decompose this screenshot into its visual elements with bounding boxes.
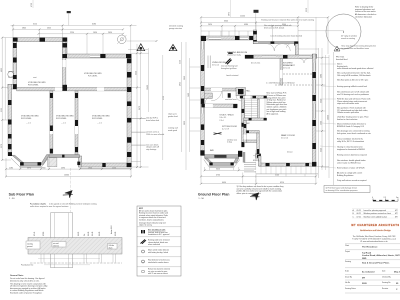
wall: SFP bottom right wall bbox=[80, 163, 131, 167]
svg-text:3110: 3110 bbox=[33, 24, 37, 26]
north arrow symbol right bbox=[169, 44, 177, 50]
svg-text:6180: 6180 bbox=[92, 24, 96, 26]
stairs treads bbox=[245, 99, 258, 120]
svg-text:May 21: May 21 bbox=[394, 271, 400, 273]
svg-text:HALL: HALL bbox=[246, 90, 251, 93]
GFP terrace below right wing bbox=[256, 173, 318, 175]
ground hatch band bbox=[28, 238, 122, 255]
mid dimension verticals between plans bbox=[163, 42, 200, 170]
svg-text:New floor joists at 400 ctrs t: New floor joists at 400 ctrs to S.E. spe… bbox=[337, 79, 368, 82]
section marker above GFP bbox=[254, 10, 259, 13]
GFP pier blocks top wall bbox=[201, 36, 206, 41]
svg-text:2150: 2150 bbox=[180, 60, 182, 64]
wall: GFP bottom right wing wall bbox=[259, 163, 316, 166]
svg-text:2845: 2845 bbox=[22, 28, 26, 30]
SFP bay outer sill lines bbox=[11, 158, 48, 167]
svg-text:Existing opening infilled to m: Existing opening infilled to match bwk bbox=[337, 85, 367, 88]
wall: SFP bay right diagonal bbox=[41, 155, 50, 165]
wardrobe lines left bedroom bbox=[207, 56, 209, 69]
interior wall: GFP wc rear horizontal bbox=[246, 140, 259, 143]
door arc hwall1 bbox=[211, 91, 222, 101]
svg-text:5.8 x 4.2: 5.8 x 4.2 bbox=[212, 64, 219, 66]
chimney breast on GFP left wall bbox=[204, 93, 212, 99]
wall: GFP right wall bbox=[312, 54, 316, 167]
white label boxes in band bbox=[26, 241, 40, 249]
svg-text:Sub Floor Plan: Sub Floor Plan bbox=[9, 192, 34, 196]
section wall outline bbox=[51, 213, 73, 268]
grid stub top left bbox=[32, 0, 34, 8]
interior wall: GFP wc vertical bbox=[244, 120, 247, 142]
svg-text:where indicated: where indicated bbox=[148, 243, 160, 246]
svg-text:FLR LEVEL: FLR LEVEL bbox=[28, 84, 39, 86]
GFP pier blocks right wall bbox=[312, 72, 316, 78]
SFP pier blocks top wall A bbox=[13, 38, 18, 42]
svg-text:96.20: 96.20 bbox=[99, 232, 101, 236]
svg-text:hearth retained: hearth retained bbox=[226, 74, 238, 77]
section marker above SFP bbox=[67, 11, 71, 13]
boxed note bottom right of plan bbox=[324, 186, 370, 193]
notes trunk line bbox=[333, 52, 335, 185]
svg-text:5.6 x 3.4: 5.6 x 3.4 bbox=[281, 137, 288, 139]
stair side wall bbox=[258, 99, 260, 120]
svg-text:FLR LEVEL: FLR LEVEL bbox=[92, 118, 103, 120]
svg-text:interlinked to smoke alarms: interlinked to smoke alarms bbox=[148, 261, 169, 264]
kitchen dashed beam line upper bbox=[283, 73, 312, 75]
leader lines from plan to notes bbox=[320, 64, 336, 168]
GFP pier blocks left wall bbox=[201, 65, 204, 71]
foundation walls below band bbox=[41, 254, 116, 263]
top right corner notes bbox=[355, 6, 377, 19]
svg-text:05.21: 05.21 bbox=[357, 210, 362, 212]
level triangle symbol below circle bbox=[334, 46, 340, 51]
SFP pier blocks bottom wall bbox=[102, 163, 105, 167]
svg-text:toughened or laminated to BS62: toughened or laminated to BS6206 bbox=[337, 148, 365, 151]
svg-text:2250: 2250 bbox=[112, 167, 116, 169]
svg-text:Sub & Ground Floor Plans: Sub & Ground Floor Plans bbox=[362, 262, 390, 264]
detail circle bbox=[326, 14, 361, 49]
svg-text:Drawing: Drawing bbox=[345, 261, 351, 263]
svg-text:to new kitchen and breakfast r: to new kitchen and breakfast room bbox=[342, 47, 370, 50]
GFP bay corner blocks bbox=[200, 150, 204, 155]
svg-text:Ground Floor Plan: Ground Floor Plan bbox=[198, 192, 230, 196]
svg-text:As indicated: As indicated bbox=[362, 270, 375, 273]
svg-text:2370: 2370 bbox=[27, 167, 31, 169]
svg-text:3820: 3820 bbox=[184, 121, 186, 125]
GFP top dimension lines bbox=[201, 17, 328, 54]
svg-text:2.5: 2.5 bbox=[384, 197, 386, 199]
radiator glyph sitting room bbox=[214, 133, 222, 135]
svg-text:min 150 bearing each end on pa: min 150 bearing each end on padstones bbox=[337, 93, 369, 96]
svg-text:4980: 4980 bbox=[244, 24, 248, 26]
SFP left dimension lines bbox=[2, 38, 13, 160]
wall: SFP left jog wall bbox=[8, 84, 17, 89]
wall: GFP bay bottom bbox=[210, 163, 234, 166]
svg-text:lintels over to S.E. details: lintels over to S.E. details bbox=[264, 26, 284, 29]
svg-text:Ivy Road: Ivy Road bbox=[362, 252, 372, 254]
svg-text:datum 96.0: datum 96.0 bbox=[110, 225, 113, 234]
stairs landing wall bbox=[240, 96, 267, 99]
legend row 2 icon bbox=[141, 240, 147, 244]
svg-text:Foundation line: Foundation line bbox=[21, 264, 33, 267]
SFP pier block step wall bbox=[63, 43, 68, 47]
svg-text:All to approval.: All to approval. bbox=[267, 112, 279, 115]
svg-text:on drawing 06 for coordination: on drawing 06 for coordination purposes bbox=[326, 189, 358, 192]
legend row 3 icon bbox=[142, 250, 145, 253]
svg-text:3BD: 3BD bbox=[362, 258, 367, 260]
svg-text:900: 900 bbox=[43, 167, 46, 169]
svg-text:units U value 1.4 W/m2K max: units U value 1.4 W/m2K max bbox=[337, 161, 361, 164]
SFP pier blocks interior bbox=[50, 93, 53, 98]
svg-text:3420: 3420 bbox=[216, 169, 220, 171]
interior wall: GFP porch side vertical bbox=[257, 133, 260, 155]
svg-text:3540: 3540 bbox=[320, 148, 322, 152]
svg-text:Drawing No: Drawing No bbox=[382, 282, 390, 284]
wall: SFP top step wall bbox=[63, 38, 68, 58]
svg-text:W: www.mtcharteredarchitects.c: W: www.mtcharteredarchitects.co.uk bbox=[360, 240, 387, 243]
svg-text:1950: 1950 bbox=[88, 167, 92, 169]
svg-text:walls retained and made good w: walls retained and made good where affec… bbox=[337, 67, 373, 70]
wall: SFP bottom mid band bbox=[49, 155, 80, 158]
svg-text:Existing services diverted as: Existing services diverted as required bbox=[337, 154, 367, 157]
SFP bottom dimension lines bbox=[6, 158, 131, 177]
door arc hwall2 bbox=[205, 96, 213, 104]
svg-text:10030: 10030 bbox=[327, 115, 329, 120]
GFP pier blocks bottom wing wall bbox=[266, 163, 270, 166]
north glyph for sub plan bbox=[63, 188, 75, 200]
svg-text:5140: 5140 bbox=[275, 175, 279, 177]
wall: GFP step wall at x253 with section line bbox=[253, 30, 257, 44]
wall: GFP left wall bbox=[201, 36, 204, 156]
porch left wall bbox=[243, 152, 245, 163]
svg-text:Drawn By: Drawn By bbox=[345, 277, 352, 279]
practice address bbox=[352, 235, 396, 243]
svg-text:site before fabrication: site before fabrication bbox=[355, 15, 372, 18]
svg-text:General Note:: General Note: bbox=[10, 274, 24, 277]
svg-text:10400: 10400 bbox=[147, 85, 149, 90]
svg-text:ground: ground bbox=[27, 245, 32, 248]
SFP right dimension lines bbox=[131, 44, 149, 168]
svg-text:2890: 2890 bbox=[184, 76, 186, 80]
svg-text:96.40: 96.40 bbox=[92, 232, 94, 236]
svg-text:4655: 4655 bbox=[1, 68, 3, 72]
wall: GFP glazed top wall (right portion) bbox=[253, 42, 298, 44]
svg-text:06.21: 06.21 bbox=[357, 213, 362, 215]
wall: SFP top wall A bbox=[13, 38, 67, 42]
svg-text:4730: 4730 bbox=[31, 3, 33, 7]
svg-text:4730: 4730 bbox=[216, 175, 220, 177]
svg-text:The Residence: The Residence bbox=[362, 246, 378, 248]
svg-text:95.80: 95.80 bbox=[115, 232, 117, 236]
svg-text:terrace: terrace bbox=[287, 151, 293, 154]
north arrow symbol left bbox=[137, 44, 145, 51]
beam over dashed bbox=[275, 84, 312, 86]
svg-text:11220: 11220 bbox=[240, 16, 245, 18]
svg-text:6340: 6340 bbox=[224, 21, 228, 23]
svg-text:dimensions only. Check dims on: dimensions only. Check dims on site. bbox=[10, 279, 40, 282]
door swing arcs top glazed wall bbox=[267, 44, 282, 51]
porch steps bbox=[244, 162, 256, 164]
svg-text:with battery backup, linked: with battery backup, linked bbox=[148, 251, 168, 254]
svg-text:GL: GL bbox=[84, 234, 86, 236]
svg-text:Checked By: Checked By bbox=[382, 277, 391, 279]
SFP pier blocks top wall B bbox=[100, 54, 105, 58]
svg-text:2.9 cl: 2.9 cl bbox=[219, 120, 224, 122]
svg-text:BS5839-6 Grade D Category LD3: BS5839-6 Grade D Category LD3 bbox=[337, 125, 364, 128]
svg-text:1 : 50: 1 : 50 bbox=[9, 198, 15, 200]
svg-text:garden level: garden level bbox=[168, 116, 178, 118]
dim ext right of SFP bottom wall bbox=[131, 161, 141, 163]
interior wall: SFP vertical 1 bbox=[50, 91, 53, 153]
svg-text:Issued for planning approval: Issued for planning approval bbox=[364, 210, 387, 212]
svg-text:External doors U value 1.6 W/m: External doors U value 1.6 W/m2K bbox=[337, 167, 365, 170]
svg-text:97.45: 97.45 bbox=[34, 232, 36, 236]
svg-text:10360: 10360 bbox=[64, 175, 69, 177]
wall: SFP left wall upper bbox=[13, 38, 17, 89]
interior wall right wing bbox=[280, 59, 283, 86]
svg-text:2650: 2650 bbox=[108, 32, 112, 34]
svg-text:1460: 1460 bbox=[188, 93, 190, 97]
wall: GFP top wall (left portion) bbox=[201, 36, 253, 40]
svg-text:1650: 1650 bbox=[93, 32, 97, 34]
svg-text:FLR LEVEL: FLR LEVEL bbox=[21, 118, 32, 120]
svg-text:100 cavity full fill insulatio: 100 cavity full fill insulation, 100 blo… bbox=[337, 74, 371, 77]
svg-text:strip footings: strip footings bbox=[146, 148, 156, 151]
svg-text:subject to survey.: subject to survey. bbox=[139, 224, 153, 227]
svg-text:3570: 3570 bbox=[1, 144, 3, 148]
circle symbol above SFP wall B right end bbox=[118, 35, 127, 44]
svg-text:2900: 2900 bbox=[282, 24, 286, 26]
svg-text:throughout grd floor: throughout grd floor bbox=[221, 67, 237, 70]
dim inside band bbox=[38, 258, 100, 260]
svg-text:Existing roof structure retain: Existing roof structure retained. New wo… bbox=[261, 19, 313, 22]
svg-text:3210: 3210 bbox=[306, 8, 308, 12]
SFP outer sill below bottom right wall bbox=[80, 167, 131, 169]
svg-text:MT CHARTERED ARCHITECTS: MT CHARTERED ARCHITECTS bbox=[351, 224, 399, 227]
legend row 5 icon bbox=[141, 270, 145, 272]
chimney mass bbox=[236, 88, 246, 96]
svg-text:drain: drain bbox=[109, 246, 113, 249]
svg-text:Line of existing structure sho: Line of existing structure shown dashed bbox=[271, 34, 303, 37]
svg-text:made good: made good bbox=[168, 130, 177, 132]
svg-text:walls where required in max 1m: walls where required in max 1m agreed se… bbox=[30, 205, 69, 208]
svg-text:9150: 9150 bbox=[163, 96, 165, 100]
svg-text:150 min: 150 min bbox=[53, 245, 59, 247]
svg-text:↔ 2.1: ↔ 2.1 bbox=[97, 123, 102, 125]
svg-text:garage structure: garage structure bbox=[169, 27, 182, 30]
wall: GFP bay right diagonal bbox=[234, 158, 239, 163]
svg-text:0: 0 bbox=[372, 197, 373, 199]
dim ticks SFP top bbox=[12, 24, 132, 34]
svg-text:5875: 5875 bbox=[229, 12, 231, 16]
svg-text:new lintel over: new lintel over bbox=[225, 98, 237, 101]
svg-text:line of units: line of units bbox=[251, 62, 260, 65]
svg-text:1500 ctrs max all walls: 1500 ctrs max all walls bbox=[146, 133, 164, 136]
porch right wall block bbox=[255, 154, 260, 158]
svg-text:96.85: 96.85 bbox=[78, 232, 80, 236]
GFP stair note text block bbox=[267, 92, 288, 116]
svg-text:members, beams and padstones.: members, beams and padstones. bbox=[139, 218, 165, 221]
svg-text:96.60: 96.60 bbox=[88, 232, 90, 236]
svg-text:foundations to B.C. approval: foundations to B.C. approval bbox=[148, 233, 170, 236]
wall: SFP top wall B bbox=[63, 54, 132, 58]
svg-text:3.4 x 3.1: 3.4 x 3.1 bbox=[219, 117, 226, 119]
svg-text:5.8 x 4.0: 5.8 x 4.0 bbox=[283, 67, 290, 69]
wall: SFP left wall lower bbox=[8, 84, 12, 156]
svg-text:Architecture and Interior Desi: Architecture and Interior Design bbox=[360, 229, 391, 232]
svg-text:Job No: Job No bbox=[345, 282, 350, 284]
svg-text:2325: 2325 bbox=[47, 28, 51, 30]
interior wall: GFP hwall2 bbox=[202, 104, 238, 107]
north glyph for ground plan bbox=[250, 190, 261, 201]
svg-text:strips and cold smoke seals: strips and cold smoke seals bbox=[337, 102, 359, 105]
svg-text:4655: 4655 bbox=[180, 82, 182, 86]
svg-text:↔ 2.1: ↔ 2.1 bbox=[26, 123, 31, 125]
svg-text:1180: 1180 bbox=[9, 167, 13, 169]
chimney circle on SFP left wall bbox=[9, 71, 14, 77]
svg-text:finishes to client selection: finishes to client selection bbox=[337, 118, 357, 121]
svg-text:100mm acoustic quilt within: 100mm acoustic quilt within bbox=[337, 111, 359, 114]
wall: GFP bay left diagonal bbox=[205, 158, 213, 163]
step wall porch to wing bbox=[258, 156, 261, 166]
GFP bottom dimension lines bbox=[201, 156, 316, 184]
svg-text:to bay: to bay bbox=[227, 141, 232, 144]
GFP bay outer sill bbox=[204, 160, 240, 167]
svg-text:Revision: Revision bbox=[382, 288, 388, 290]
wall: GFP right upper wall bbox=[295, 44, 298, 55]
svg-text:FLR LEVEL: FLR LEVEL bbox=[88, 75, 98, 77]
interior wall: SFP vertical 2 bbox=[75, 91, 78, 155]
svg-text:2620: 2620 bbox=[208, 24, 212, 26]
wall: SFP bay bottom bbox=[20, 162, 41, 165]
svg-text:6470: 6470 bbox=[139, 106, 141, 110]
svg-text:Linden Road, Aldershot, Hants,: Linden Road, Aldershot, Hants, GU11 bbox=[362, 254, 400, 257]
svg-text:BAY: BAY bbox=[210, 149, 215, 152]
SFP pier blocks left wall upper bbox=[13, 43, 17, 48]
svg-text:97.10: 97.10 bbox=[43, 232, 45, 236]
svg-text:FLR LEVEL: FLR LEVEL bbox=[56, 118, 67, 120]
svg-text:WC: WC bbox=[247, 123, 251, 125]
svg-text:drain below slab: drain below slab bbox=[146, 120, 159, 122]
svg-text:Party wall notices served as r: Party wall notices served as required bbox=[337, 179, 366, 182]
svg-text:2080: 2080 bbox=[320, 74, 322, 78]
svg-text:2340: 2340 bbox=[320, 99, 322, 103]
SFP pier blocks right wall bbox=[127, 58, 131, 63]
svg-text:vent: vent bbox=[33, 76, 37, 79]
SFP dimension lines above bbox=[11, 25, 137, 54]
wall: GFP bay top band bbox=[205, 155, 239, 159]
svg-text:1 : 50: 1 : 50 bbox=[198, 198, 204, 200]
svg-text:with 15 min overrun timers: with 15 min overrun timers bbox=[148, 272, 168, 275]
wall: GFP kitchen band wall bbox=[245, 55, 316, 59]
interior wall: SFP horizontal bbox=[17, 88, 127, 91]
svg-text:Standards codes of practice th: Standards codes of practice throughout. bbox=[10, 292, 42, 295]
svg-text:↔ 2.1: ↔ 2.1 bbox=[61, 123, 66, 125]
legend row 1 icon bbox=[141, 230, 143, 233]
svg-text:threshold level: threshold level bbox=[336, 58, 348, 61]
title block field lines bbox=[345, 244, 400, 293]
interior wall: GFP wc horizontal bbox=[246, 131, 259, 134]
hall wall below stairs bbox=[244, 118, 267, 120]
GFP interior: hwall1 with chimney bbox=[204, 88, 236, 91]
svg-text:foul system, invert levels con: foul system, invert levels confirmed on … bbox=[337, 132, 371, 135]
wall: SFP bottom step wall bbox=[78, 156, 81, 167]
SFP entry step at bay right bbox=[48, 158, 57, 167]
svg-text:3350: 3350 bbox=[135, 71, 137, 75]
svg-text:6090: 6090 bbox=[222, 182, 226, 184]
legend row 4 icon bbox=[142, 260, 145, 263]
svg-text:reveal as existing: reveal as existing bbox=[341, 37, 355, 40]
svg-text:3125: 3125 bbox=[1, 108, 3, 112]
centerline below SFP bbox=[69, 168, 71, 212]
svg-text:2250: 2250 bbox=[70, 32, 74, 34]
svg-text:6210: 6210 bbox=[280, 182, 284, 184]
scale bar bbox=[372, 197, 399, 201]
wall: SFP bay left diagonal bbox=[12, 155, 23, 162]
rotated level labels above band bbox=[34, 225, 117, 236]
svg-text:2390: 2390 bbox=[61, 167, 65, 169]
GFP note below plan bbox=[237, 185, 284, 195]
GFP right dimension lines bbox=[298, 48, 329, 178]
svg-text:utility 30 l/s, WC 15 l/s inte: utility 30 l/s, WC 15 l/s intermittent bbox=[337, 140, 365, 143]
grid line stubs at top edge bbox=[230, 0, 232, 17]
SFP pier blocks left wall lower bbox=[8, 100, 12, 105]
svg-text:4.2 x 3.9: 4.2 x 3.9 bbox=[222, 128, 229, 130]
interior wall: GFP vert mid bbox=[242, 96, 245, 148]
interior wall: SFP vertical top-left room bbox=[63, 42, 66, 88]
fireplace marks below hwall1 bbox=[228, 93, 231, 98]
wall: SFP right wall bbox=[127, 58, 131, 167]
svg-text:Building Regulations: Building Regulations bbox=[337, 174, 353, 177]
svg-text:ENTRY: ENTRY bbox=[253, 160, 260, 162]
revision table bbox=[353, 209, 399, 218]
svg-text:Scale: Scale bbox=[345, 270, 349, 272]
svg-text:sections of the new works.: sections of the new works. bbox=[355, 10, 377, 13]
